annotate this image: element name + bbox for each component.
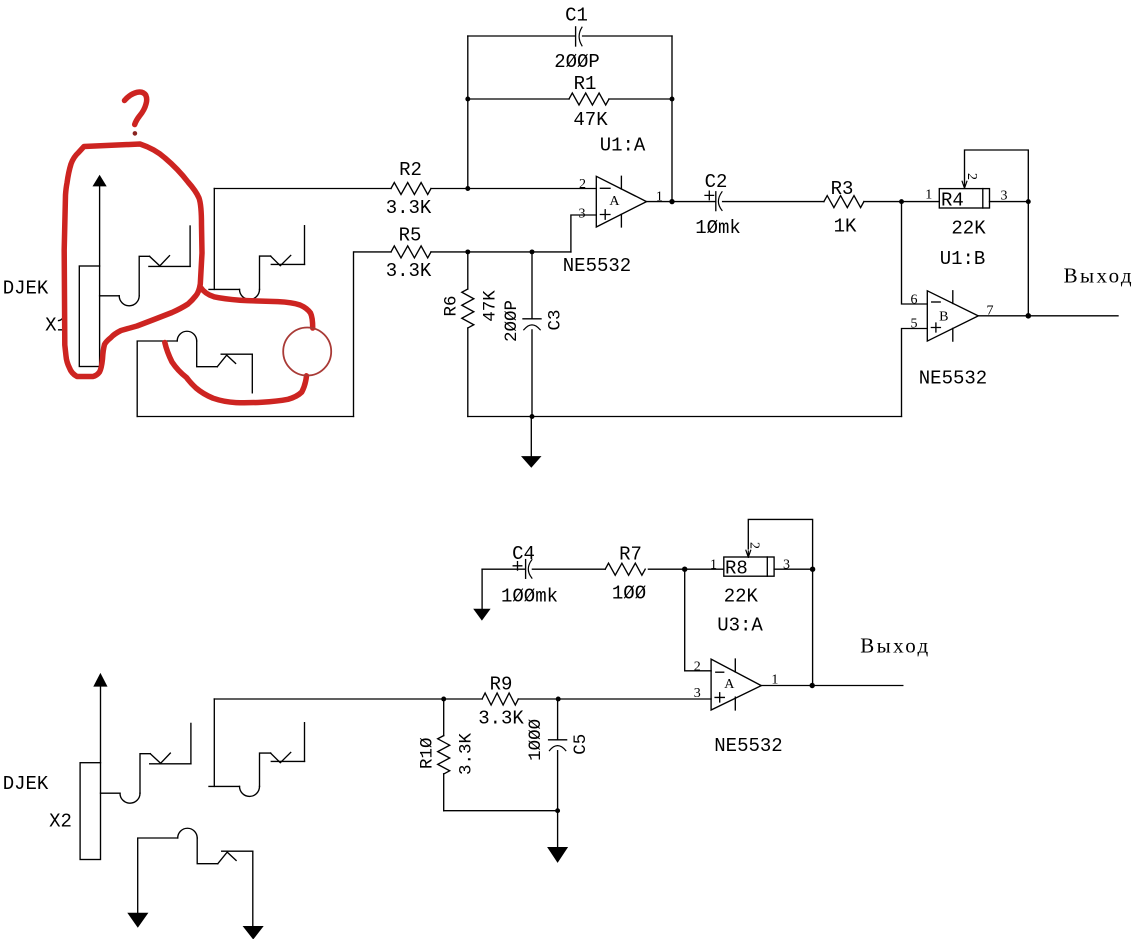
svg-text:47K: 47K xyxy=(573,109,608,131)
svg-text:2: 2 xyxy=(579,177,586,192)
svg-text:R5: R5 xyxy=(399,225,422,247)
svg-text:6: 6 xyxy=(911,293,918,308)
svg-text:2: 2 xyxy=(964,173,979,180)
svg-text:3.3K: 3.3K xyxy=(478,708,524,730)
svg-text:22K: 22K xyxy=(951,218,986,240)
svg-text:1K: 1K xyxy=(834,216,857,238)
svg-text:C5: C5 xyxy=(571,734,591,755)
svg-text:R6: R6 xyxy=(442,295,462,316)
svg-text:B: B xyxy=(939,309,948,324)
svg-text:2ØØP: 2ØØP xyxy=(554,51,600,73)
svg-text:C1: C1 xyxy=(565,5,588,27)
svg-text:A: A xyxy=(724,677,735,692)
svg-text:U1:A: U1:A xyxy=(600,135,646,157)
svg-text:3.3K: 3.3K xyxy=(386,260,432,282)
svg-text:1Ømk: 1Ømk xyxy=(695,217,741,239)
svg-text:1ØØØ: 1ØØØ xyxy=(526,719,546,761)
svg-text:1: 1 xyxy=(656,190,663,205)
svg-text:1ØØmk: 1ØØmk xyxy=(501,586,558,608)
svg-text:R7: R7 xyxy=(619,544,642,566)
svg-text:2ØØP: 2ØØP xyxy=(502,300,522,342)
svg-text:47K: 47K xyxy=(481,290,501,322)
svg-text:NE5532: NE5532 xyxy=(919,368,987,390)
svg-text:R1Ø: R1Ø xyxy=(417,737,437,769)
svg-text:5: 5 xyxy=(911,317,918,332)
svg-text:R2: R2 xyxy=(399,159,422,181)
svg-text:3: 3 xyxy=(579,207,586,222)
svg-text:Выход: Выход xyxy=(1064,264,1134,288)
svg-text:3: 3 xyxy=(694,686,701,701)
svg-text:C2: C2 xyxy=(705,171,728,193)
svg-text:1: 1 xyxy=(925,188,932,203)
svg-text:R9: R9 xyxy=(490,674,513,696)
svg-text:22K: 22K xyxy=(724,586,759,608)
svg-text:1: 1 xyxy=(710,558,717,573)
svg-text:C3: C3 xyxy=(546,309,566,330)
svg-text:NE5532: NE5532 xyxy=(563,255,631,277)
svg-text:A: A xyxy=(609,194,620,209)
svg-text:3.3K: 3.3K xyxy=(457,733,477,776)
svg-text:3: 3 xyxy=(783,558,790,573)
svg-text:2: 2 xyxy=(747,542,762,549)
svg-text:3: 3 xyxy=(1001,189,1008,204)
svg-text:R3: R3 xyxy=(831,178,854,200)
svg-text:7: 7 xyxy=(987,304,994,319)
svg-text:U1:B: U1:B xyxy=(940,248,986,270)
svg-text:R1: R1 xyxy=(574,73,597,95)
svg-text:NE5532: NE5532 xyxy=(714,735,782,757)
svg-text:1: 1 xyxy=(771,673,778,688)
svg-text:X2: X2 xyxy=(49,811,72,833)
svg-text:2: 2 xyxy=(694,660,701,675)
svg-text:R8: R8 xyxy=(725,558,748,580)
svg-text:R4: R4 xyxy=(941,190,964,212)
svg-text:DJEK: DJEK xyxy=(3,278,49,300)
svg-text:DJEK: DJEK xyxy=(3,773,49,795)
svg-text:Выход: Выход xyxy=(860,634,930,658)
svg-text:C4: C4 xyxy=(512,543,535,565)
svg-text:U3:A: U3:A xyxy=(717,615,763,637)
svg-text:3.3K: 3.3K xyxy=(386,197,432,219)
svg-text:1ØØ: 1ØØ xyxy=(612,583,646,605)
